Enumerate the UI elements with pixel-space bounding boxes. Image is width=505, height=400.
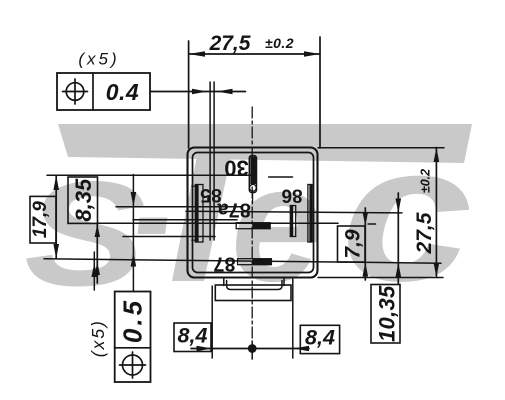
svg-text:(x5): (x5) bbox=[78, 50, 119, 69]
8,4 arrows bbox=[197, 346, 213, 351]
horizontal line y236 bbox=[123, 236, 215, 238]
pin 87a slot fill bbox=[252, 223, 270, 229]
horizontal line y207 bbox=[116, 206, 242, 208]
pin 87 slot bbox=[238, 259, 272, 265]
small leader x94 bbox=[93, 252, 95, 290]
8,35 arrows bbox=[95, 224, 100, 237]
ext line left 27,5 bbox=[188, 41, 190, 148]
center line vertical dashed bbox=[251, 107, 253, 341]
left bracket fill bbox=[195, 185, 198, 243]
watermark letter e bbox=[231, 132, 323, 316]
7,9 dimension bbox=[338, 226, 366, 262]
horizontal extension line y175 bbox=[47, 174, 251, 176]
arrowheads bbox=[53, 51, 439, 353]
svg-text:27,5: 27,5 bbox=[209, 32, 251, 55]
watermark letter S bbox=[24, 151, 146, 317]
0.4 extension lines / pin85 slot sides bbox=[209, 82, 211, 240]
27,5 vertical arrows bbox=[434, 148, 440, 163]
17,9 dimension bbox=[30, 196, 56, 243]
svg-text:8,35: 8,35 bbox=[71, 178, 96, 222]
watermark letter c bbox=[341, 104, 473, 321]
pin 30 slot fill bbox=[250, 157, 256, 185]
svg-text:8,4: 8,4 bbox=[305, 326, 335, 350]
center dot bbox=[248, 344, 257, 353]
segment y177 bbox=[269, 176, 293, 178]
svg-text:87a: 87a bbox=[217, 198, 251, 220]
right bracket fill bbox=[309, 185, 312, 243]
ext line right 27,5 bbox=[319, 37, 321, 148]
svg-text:0.5: 0.5 bbox=[118, 298, 148, 343]
horizontal line y211 bbox=[186, 211, 402, 213]
horizontal line y223 bbox=[97, 222, 339, 224]
svg-text:27,5: 27,5 bbox=[413, 212, 436, 254]
27,5 top arrows bbox=[189, 51, 205, 57]
pin 86 slot bbox=[290, 206, 295, 237]
0.5 leader bbox=[132, 175, 134, 292]
svg-text:86: 86 bbox=[281, 185, 302, 206]
0.5 leader arrows bbox=[131, 192, 137, 207]
right bracket bbox=[308, 185, 312, 243]
feature control frame box top-left bbox=[57, 73, 150, 110]
8,4 dimension boxes bbox=[174, 323, 211, 352]
relay inner shell bbox=[193, 153, 314, 273]
svg-text:7,9: 7,9 bbox=[342, 229, 365, 259]
7,9 arrows bbox=[363, 212, 369, 226]
0.5 feature control frame bbox=[115, 292, 151, 383]
svg-text:±0.2: ±0.2 bbox=[419, 169, 433, 193]
8,35 dimension bbox=[68, 177, 98, 223]
left bracket bbox=[195, 185, 203, 243]
pin 87a slot bbox=[236, 223, 270, 229]
top ext right 27,5 vertical bbox=[318, 147, 444, 149]
svg-text:30: 30 bbox=[224, 155, 248, 180]
pin 86 slot fill bbox=[291, 206, 293, 236]
horizontal line y220 bbox=[133, 219, 237, 221]
svg-text:8,4: 8,4 bbox=[178, 324, 208, 348]
watermark hyphen bbox=[138, 218, 168, 235]
svg-text:17,9: 17,9 bbox=[30, 201, 51, 238]
svg-text:±0.2: ±0.2 bbox=[265, 35, 294, 51]
mount bracket below relay bbox=[223, 278, 225, 286]
27,5 vertical dim line bbox=[435, 148, 437, 278]
pin 87 slot fill bbox=[252, 259, 271, 265]
svg-text:0.4: 0.4 bbox=[106, 79, 139, 105]
svg-text:87: 87 bbox=[213, 253, 235, 275]
long bottom line bbox=[44, 259, 441, 263]
relay outer body bbox=[188, 148, 318, 278]
pin 30 slot bbox=[249, 156, 256, 193]
svg-text:(x5): (x5) bbox=[88, 319, 108, 357]
position symbol top-left bbox=[66, 83, 84, 101]
pin labels rotated 180 bbox=[200, 155, 303, 274]
leader line 0.4 bbox=[150, 91, 246, 93]
0.4 leader arrows bbox=[192, 89, 208, 94]
watermark band bbox=[58, 124, 472, 163]
8,4 ext lines bbox=[211, 286, 213, 358]
watermark T stem bbox=[172, 156, 231, 281]
dim line 27,5 top bbox=[189, 53, 320, 55]
17,9 arrows bbox=[53, 176, 59, 191]
10,35 dimension bbox=[397, 193, 399, 285]
x94 leader arrow bbox=[92, 263, 98, 278]
svg-text:10,35: 10,35 bbox=[375, 285, 400, 342]
8,4 dim line bbox=[191, 348, 309, 350]
relay bottom ext right bbox=[318, 277, 443, 279]
10,35 arrows bbox=[396, 199, 402, 214]
